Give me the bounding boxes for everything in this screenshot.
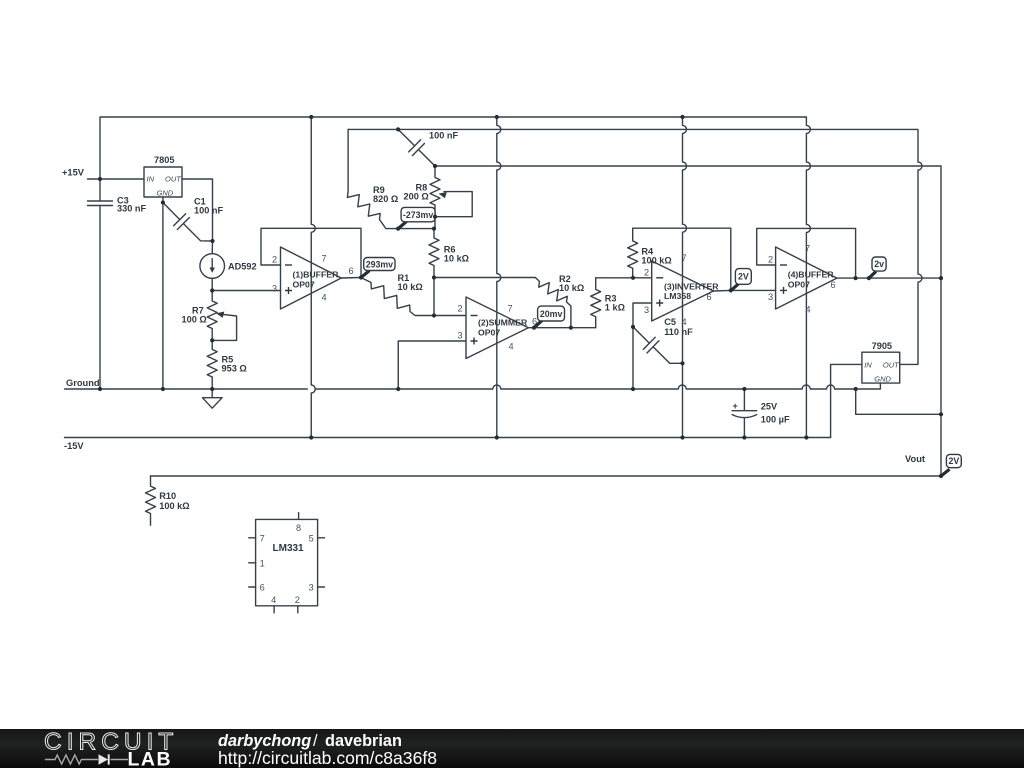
svg-text:IN: IN bbox=[147, 175, 155, 184]
svg-text:R10: R10 bbox=[159, 491, 176, 501]
junction op2 V- rail bbox=[495, 435, 499, 439]
svg-text:2: 2 bbox=[272, 255, 277, 265]
resistor R5 bbox=[207, 340, 217, 389]
svg-text:100 kΩ: 100 kΩ bbox=[159, 501, 189, 511]
wire op2 pin3 bbox=[398, 341, 466, 389]
junction op3 pin3 ground bbox=[631, 387, 635, 391]
regulator U? 7805 box bbox=[144, 167, 182, 197]
resistor R2 bbox=[535, 278, 571, 328]
svg-text:100 Ω: 100 Ω bbox=[182, 315, 207, 325]
junction op1 output 293mv bbox=[359, 275, 363, 279]
regulator 7905 box bbox=[862, 352, 900, 383]
capacitor C5 bbox=[633, 327, 683, 363]
junction R7 wiper node bbox=[210, 338, 214, 342]
svg-text:-273mv: -273mv bbox=[403, 210, 433, 220]
junction ground branch Vout riser bbox=[939, 412, 943, 416]
svg-text:(2)SUMMER: (2)SUMMER bbox=[478, 318, 528, 328]
svg-text:2V: 2V bbox=[738, 272, 749, 282]
svg-text:http://circuitlab.com/c8a36f8: http://circuitlab.com/c8a36f8 bbox=[218, 748, 437, 768]
svg-text:2v: 2v bbox=[874, 259, 884, 269]
capacitor C3 bbox=[88, 201, 113, 206]
svg-text:AD592: AD592 bbox=[228, 262, 257, 272]
op-amp U3 supply column bbox=[683, 117, 687, 438]
junction C5 left bbox=[631, 325, 635, 329]
op-amp U1 supply column bbox=[311, 117, 315, 438]
svg-text:2: 2 bbox=[644, 268, 649, 278]
junction op3 pin2 R4 bbox=[631, 276, 635, 280]
wire Vout row bbox=[151, 475, 942, 477]
op-amp U3 triangle bbox=[652, 261, 714, 321]
LM331 pin stubs bbox=[249, 513, 325, 613]
svg-text:Ground: Ground bbox=[66, 378, 100, 388]
tag 2V Vout bbox=[941, 454, 961, 476]
svg-text:(1)BUFFER: (1)BUFFER bbox=[293, 270, 340, 280]
svg-text:4: 4 bbox=[322, 293, 327, 303]
wire op4 feedback bbox=[757, 228, 856, 278]
pot R8 wiper bbox=[435, 192, 472, 217]
tag 20mv bbox=[534, 306, 565, 328]
capacitor C4 25V 100uF bbox=[732, 389, 757, 438]
op-amp U2 supply column bbox=[497, 117, 501, 438]
svg-text:OUT: OUT bbox=[883, 360, 900, 369]
svg-text:+15V: +15V bbox=[62, 168, 85, 178]
svg-text:10 kΩ: 10 kΩ bbox=[444, 254, 469, 264]
junction 7905 GND ground bbox=[854, 387, 858, 391]
svg-text:OP07: OP07 bbox=[788, 280, 810, 290]
svg-text:2: 2 bbox=[458, 304, 463, 314]
junction R5 ground bbox=[210, 387, 214, 391]
wire left rail upper bbox=[99, 179, 101, 201]
svg-text:4: 4 bbox=[271, 595, 276, 605]
op-amp U4 triangle bbox=[776, 247, 837, 309]
wire -15V rail bbox=[65, 437, 831, 439]
wire 7905 IN bbox=[831, 364, 862, 437]
junction 7805 OUT node bbox=[210, 239, 214, 243]
svg-text:3: 3 bbox=[644, 305, 649, 315]
svg-text:7: 7 bbox=[322, 254, 327, 264]
svg-text:Vout: Vout bbox=[905, 454, 925, 464]
svg-text:C5: C5 bbox=[664, 317, 676, 327]
svg-text:1 kΩ: 1 kΩ bbox=[605, 303, 625, 313]
svg-text:953 Ω: 953 Ω bbox=[222, 364, 247, 374]
wire op3 output bbox=[713, 289, 775, 292]
resistor R3 bbox=[591, 278, 601, 328]
svg-text:100 nF: 100 nF bbox=[194, 206, 223, 216]
wire +15V stub bbox=[88, 178, 145, 180]
wire op2 output row bbox=[528, 327, 595, 329]
junction op4 output rail3 bbox=[939, 276, 943, 280]
junction top bus op3 V+ bbox=[680, 115, 684, 119]
svg-text:+: + bbox=[733, 401, 738, 411]
wire rail2 (R9 top to 7905 OUT) bbox=[348, 129, 922, 364]
junction op4 feedback bbox=[854, 276, 858, 280]
wire op1 pin3 row bbox=[212, 290, 280, 292]
junction +15V node bbox=[98, 177, 102, 181]
junction R2 bottom bbox=[569, 326, 573, 330]
wire summing column bbox=[433, 278, 435, 316]
junction top bus op2 V+ bbox=[495, 115, 499, 119]
tag 293mv bbox=[361, 258, 395, 278]
resistor R9 bbox=[347, 129, 434, 228]
svg-text:6: 6 bbox=[260, 583, 265, 593]
op-amp U1 triangle bbox=[281, 247, 342, 309]
junction C4 -15V bbox=[742, 435, 746, 439]
resistor R7 (pot) bbox=[207, 291, 217, 341]
wire summing row to R2 bbox=[434, 277, 535, 279]
svg-text:293mv: 293mv bbox=[366, 259, 393, 269]
svg-text:7: 7 bbox=[805, 244, 810, 254]
junction 2v probe bbox=[867, 276, 871, 280]
svg-text:LM331: LM331 bbox=[273, 543, 305, 554]
wire 7805 GND bbox=[162, 197, 164, 389]
svg-text:820 Ω: 820 Ω bbox=[373, 194, 398, 204]
ground symbol bbox=[202, 389, 222, 408]
svg-text:OP07: OP07 bbox=[293, 280, 315, 290]
wire R1 row to op2 pin2 bbox=[434, 315, 466, 317]
svg-text:6: 6 bbox=[349, 266, 354, 276]
svg-text:2: 2 bbox=[295, 595, 300, 605]
svg-text:7905: 7905 bbox=[872, 341, 892, 351]
wire rail3 (cap to Vout riser) bbox=[435, 166, 941, 278]
junction C5 right bbox=[680, 361, 684, 365]
wire left rail lower bbox=[99, 206, 101, 390]
svg-text:3: 3 bbox=[458, 331, 463, 341]
junction op3 output 2V bbox=[729, 288, 733, 292]
svg-text:110 nF: 110 nF bbox=[664, 327, 693, 337]
svg-text:3: 3 bbox=[309, 583, 314, 593]
junction -273mv probe bbox=[396, 227, 400, 231]
junction op2 output 20mv bbox=[532, 326, 536, 330]
op-amp U2 triangle bbox=[466, 297, 528, 359]
wire Vout riser bbox=[940, 278, 942, 476]
junction op3 V- rail bbox=[680, 435, 684, 439]
svg-text:4: 4 bbox=[682, 317, 687, 327]
svg-text:100 kΩ: 100 kΩ bbox=[641, 256, 671, 266]
current source AD592 bbox=[200, 254, 225, 279]
svg-text:LM358: LM358 bbox=[664, 291, 691, 301]
svg-text:10 kΩ: 10 kΩ bbox=[398, 282, 423, 292]
wire Ground rail bbox=[65, 385, 856, 389]
svg-text:6: 6 bbox=[707, 292, 712, 302]
svg-text:100 nF: 100 nF bbox=[429, 131, 458, 141]
svg-text:20mv: 20mv bbox=[540, 309, 563, 319]
svg-text:200 Ω: 200 Ω bbox=[404, 192, 429, 202]
svg-text:OP07: OP07 bbox=[478, 328, 500, 338]
svg-text:100 µF: 100 µF bbox=[761, 415, 790, 425]
capacitor C1 bbox=[163, 203, 213, 242]
wire R3 top to op3 pin2 bbox=[596, 277, 652, 279]
svg-text:(4)BUFFER: (4)BUFFER bbox=[788, 270, 835, 280]
junction op1 V- rail bbox=[309, 435, 313, 439]
junction op2 pin3 ground bbox=[396, 387, 400, 391]
wire op3 feedback bbox=[633, 228, 731, 290]
capacitor C2 100nF bbox=[398, 129, 435, 166]
wire op3 pin3 bbox=[633, 303, 652, 389]
resistor R8 bbox=[430, 166, 440, 229]
svg-text:7: 7 bbox=[508, 304, 513, 314]
svg-text:7: 7 bbox=[682, 253, 687, 263]
svg-text:3: 3 bbox=[768, 292, 773, 302]
svg-text:4: 4 bbox=[509, 342, 514, 352]
wire R6 bbox=[429, 229, 439, 278]
svg-text:7: 7 bbox=[260, 533, 265, 543]
svg-text:(3)INVERTER: (3)INVERTER bbox=[664, 282, 719, 292]
junction C3 ground bbox=[98, 387, 102, 391]
resistor R1 bbox=[361, 278, 434, 316]
svg-text:10 kΩ: 10 kΩ bbox=[559, 283, 584, 293]
junction summing node bbox=[432, 313, 436, 317]
wire op1 feedback bbox=[261, 228, 361, 277]
junction C2 top rail2 bbox=[396, 127, 400, 131]
wire 7805 OUT to node bbox=[182, 179, 213, 241]
svg-text:-15V: -15V bbox=[64, 441, 84, 451]
svg-text:25V: 25V bbox=[761, 402, 778, 412]
svg-text:6: 6 bbox=[831, 280, 836, 290]
tag -273mv bbox=[398, 207, 437, 228]
logo resistor-diode glyph bbox=[45, 754, 128, 764]
svg-text:OUT: OUT bbox=[165, 175, 182, 184]
junction C2/R8 rail3 bbox=[433, 164, 437, 168]
svg-text:1: 1 bbox=[260, 558, 265, 568]
wire op4 output row bbox=[837, 277, 941, 279]
tag 2v op4 bbox=[869, 257, 886, 278]
svg-text:GND: GND bbox=[874, 375, 891, 384]
wire top +15V bus bbox=[100, 117, 806, 179]
junction GND column ground bbox=[161, 387, 165, 391]
pot R7 wiper bbox=[212, 314, 236, 340]
svg-text:4: 4 bbox=[806, 305, 811, 315]
svg-text:8: 8 bbox=[296, 523, 301, 533]
IC LM331 box bbox=[256, 519, 318, 605]
junction R6 bottom bbox=[432, 275, 436, 279]
svg-text:2: 2 bbox=[768, 255, 773, 265]
svg-text:IN: IN bbox=[864, 360, 872, 369]
resistor R4 bbox=[628, 228, 638, 278]
svg-text:330 nF: 330 nF bbox=[117, 204, 146, 214]
junction R8 wiper bbox=[433, 215, 437, 219]
wire op1 output bbox=[341, 277, 361, 280]
svg-text:5: 5 bbox=[309, 533, 314, 543]
junction -273mv node R8/R6 bbox=[432, 227, 436, 231]
junction Vout 2V probe bbox=[939, 474, 943, 478]
svg-text:GND: GND bbox=[157, 189, 174, 198]
op-amp U4 supply column bbox=[806, 117, 811, 438]
resistor R10 bbox=[146, 476, 156, 525]
junction op4 V- rail bbox=[804, 435, 808, 439]
junction C4 ground bbox=[742, 387, 746, 391]
svg-text:3: 3 bbox=[272, 284, 277, 294]
junction 7805 GND node bbox=[161, 200, 165, 204]
junction AD592/op1 pin3 bbox=[210, 288, 214, 292]
tag 2V op3 bbox=[731, 269, 751, 291]
svg-text:2V: 2V bbox=[949, 456, 960, 466]
svg-text:LAB: LAB bbox=[128, 749, 173, 768]
wire 7905 GND branch bbox=[856, 383, 941, 414]
junction top bus op1 V+ bbox=[309, 115, 313, 119]
svg-text:7805: 7805 bbox=[154, 155, 174, 165]
